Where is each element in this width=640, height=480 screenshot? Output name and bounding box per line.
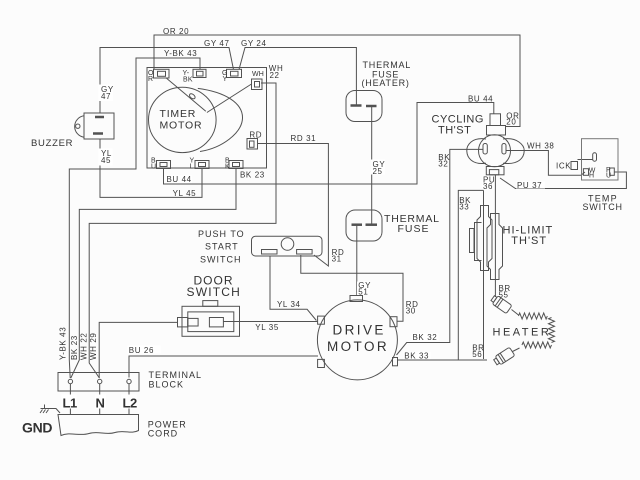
svg-text:33: 33 — [459, 203, 469, 212]
timer terminal BU — [157, 161, 171, 169]
svg-text:20: 20 — [506, 118, 516, 127]
ground symbol — [40, 405, 49, 414]
svg-text:SWITCH: SWITCH — [187, 285, 242, 299]
svg-text:START: START — [205, 242, 239, 252]
timer contact arm 2 — [207, 84, 252, 113]
svg-text:TH'ST: TH'ST — [511, 235, 547, 247]
svg-text:WH 22: WH 22 — [80, 333, 89, 360]
svg-text:U: U — [606, 173, 611, 180]
svg-text:BK 23: BK 23 — [240, 171, 265, 180]
svg-text:30: 30 — [406, 307, 416, 316]
svg-text:U: U — [151, 164, 156, 171]
svg-text:SWITCH: SWITCH — [200, 255, 242, 265]
svg-text:BU 44: BU 44 — [167, 175, 192, 184]
svg-text:BU 26: BU 26 — [129, 346, 154, 355]
cycling thermostat — [467, 114, 524, 175]
label BK 32 motor — [412, 333, 439, 342]
svg-text:56: 56 — [472, 350, 482, 359]
svg-text:TERMINAL: TERMINAL — [149, 370, 203, 380]
svg-text:YL 35: YL 35 — [255, 323, 279, 332]
terminal block — [58, 373, 139, 415]
svg-text:WH: WH — [252, 71, 264, 78]
timer terminal YL — [195, 161, 209, 169]
hi-limit thermostat — [470, 206, 503, 280]
wire GY 51 — [356, 226, 358, 296]
timer terminal G/Y — [227, 69, 242, 77]
wire GY 47 — [100, 48, 234, 114]
svg-text:SWITCH: SWITCH — [583, 202, 623, 212]
svg-text:32: 32 — [438, 160, 448, 169]
svg-text:BLOCK: BLOCK — [149, 380, 185, 390]
svg-text:GY 24: GY 24 — [241, 39, 267, 48]
svg-text:22: 22 — [270, 71, 280, 80]
temp switch — [571, 139, 618, 180]
svg-text:ICK: ICK — [556, 162, 571, 171]
timer cam lobe — [198, 88, 243, 151]
label BK 33 motor — [404, 352, 431, 361]
wire BK 32 — [397, 149, 484, 355]
svg-text:BUZZER: BUZZER — [31, 138, 73, 149]
svg-text:Y-BK 43: Y-BK 43 — [164, 49, 197, 58]
label PU 37 — [516, 181, 545, 190]
wire RD 30 — [301, 255, 403, 321]
timer terminal BK — [229, 161, 243, 169]
svg-text:TIMER: TIMER — [160, 108, 197, 120]
svg-text:L1: L1 — [63, 396, 77, 411]
wire GND link — [43, 409, 60, 414]
svg-text:25: 25 — [373, 167, 383, 176]
wire YL 35 — [223, 321, 317, 323]
wire temp switch internal — [578, 159, 593, 161]
label L2 — [122, 395, 137, 411]
timer motor box — [147, 68, 267, 169]
svg-text:55: 55 — [499, 291, 509, 300]
svg-text:BK 23: BK 23 — [70, 335, 79, 360]
svg-text:BU 44: BU 44 — [468, 95, 493, 104]
svg-text:Y-BK 43: Y-BK 43 — [59, 327, 68, 360]
wire hi-limit left leg to BR 56 — [483, 190, 485, 359]
svg-text:Y: Y — [223, 76, 228, 83]
wire BK 33 horizontal to heater — [397, 359, 487, 361]
svg-text:K: K — [225, 164, 230, 171]
heater plug BR 55 — [490, 294, 519, 315]
timer terminal WH — [252, 79, 263, 90]
drive motor — [317, 296, 397, 380]
svg-text:GY 47: GY 47 — [204, 39, 230, 48]
heater element zigzag — [519, 313, 555, 348]
svg-text:N: N — [96, 396, 105, 411]
wire BK 33 vertical — [458, 190, 483, 360]
label L1 — [62, 395, 77, 411]
svg-text:MOTOR: MOTOR — [160, 120, 203, 132]
wire YL 34 — [270, 256, 316, 321]
timer terminal O/R — [154, 69, 170, 78]
timer contact arm 1 — [167, 78, 206, 111]
wire Y-BK 43 — [69, 58, 200, 378]
svg-text:36: 36 — [483, 182, 493, 191]
svg-text:YL 34: YL 34 — [277, 300, 301, 309]
svg-text:H: H — [589, 173, 594, 180]
thermal fuse (heater) — [346, 91, 382, 122]
svg-text:L: L — [190, 164, 194, 171]
thermal fuse (lower) — [346, 210, 382, 241]
wire YL 45 — [100, 139, 202, 197]
svg-text:OR 20: OR 20 — [163, 27, 189, 36]
timer motor circle — [149, 87, 217, 152]
wire WH 29 — [99, 322, 177, 378]
wire WH 38 — [506, 151, 585, 176]
power cord — [58, 415, 139, 436]
svg-text:HEATER: HEATER — [493, 327, 552, 339]
label PU/36 — [482, 176, 495, 192]
svg-text:L2: L2 — [123, 396, 137, 411]
svg-text:47: 47 — [101, 92, 111, 101]
door switch — [178, 301, 240, 337]
svg-text:WH 38: WH 38 — [527, 142, 554, 151]
svg-text:MOTOR: MOTOR — [327, 339, 389, 354]
svg-text:(HEATER): (HEATER) — [362, 78, 410, 88]
svg-text:R: R — [148, 76, 153, 83]
svg-text:RD 31: RD 31 — [291, 134, 317, 143]
svg-text:45: 45 — [101, 156, 111, 165]
label GY 47 vertical wire — [99, 85, 114, 102]
svg-text:CORD: CORD — [148, 429, 179, 439]
svg-text:RD: RD — [249, 131, 262, 140]
push to start switch — [252, 236, 323, 256]
label BU 26 — [128, 346, 161, 356]
label GY/25 — [371, 160, 385, 177]
wire RD 31 — [258, 144, 329, 267]
wire BU 26 — [129, 356, 318, 378]
timer contact nub — [189, 93, 197, 100]
label GY/51 — [357, 281, 371, 297]
buzzer — [75, 113, 114, 139]
wire PU 37 — [500, 172, 626, 189]
svg-text:PUSH TO: PUSH TO — [198, 229, 245, 239]
svg-text:WH 29: WH 29 — [89, 333, 98, 360]
svg-text:GND: GND — [22, 420, 52, 436]
label BU 44 bottom — [165, 175, 192, 184]
wire WH 22 — [89, 83, 276, 378]
wire BK 23 — [71, 169, 236, 379]
wire BU 44 — [164, 103, 494, 185]
timer terminal RD — [247, 139, 258, 150]
label YL 45 buzzer — [99, 149, 113, 166]
timer terminal Y-BK — [193, 69, 206, 77]
svg-text:BK: BK — [183, 77, 193, 84]
wire OR 20 — [154, 35, 520, 127]
heater plug BR 56 — [493, 347, 520, 366]
svg-text:31: 31 — [332, 255, 342, 264]
svg-text:BK 33: BK 33 — [404, 352, 429, 361]
svg-text:THERMAL: THERMAL — [363, 60, 412, 70]
svg-text:PU 37: PU 37 — [517, 181, 542, 190]
svg-text:TH'ST: TH'ST — [438, 125, 471, 137]
svg-text:51: 51 — [358, 288, 368, 297]
svg-text:DRIVE: DRIVE — [333, 323, 386, 338]
wire GY 25 — [371, 107, 373, 225]
wire GY 24 — [239, 48, 356, 105]
wire PU 36 — [494, 175, 496, 297]
svg-text:YL 45: YL 45 — [173, 189, 197, 198]
label N — [95, 395, 106, 411]
svg-text:FUSE: FUSE — [398, 223, 430, 235]
svg-text:BK 32: BK 32 — [413, 333, 438, 342]
